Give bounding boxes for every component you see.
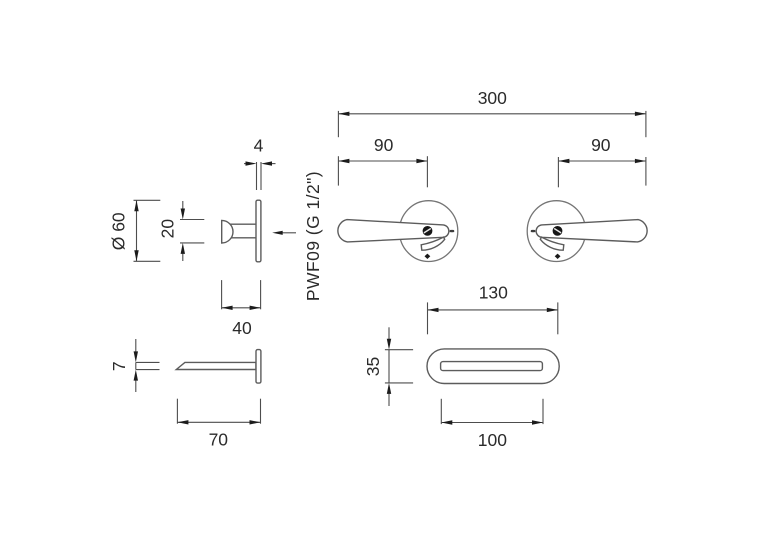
extension lines of 4 bbox=[257, 162, 262, 190]
dimension line diameter 60 bbox=[134, 200, 138, 261]
svg-text:300: 300 bbox=[478, 88, 507, 108]
svg-text:35: 35 bbox=[363, 357, 383, 376]
dimension text 40 bbox=[232, 318, 252, 338]
svg-text:70: 70 bbox=[209, 429, 229, 449]
extension lines of 100 bbox=[441, 399, 543, 424]
svg-text:100: 100 bbox=[478, 430, 507, 450]
right handle side tick mark bbox=[531, 230, 536, 232]
svg-text:7: 7 bbox=[109, 361, 129, 371]
extension lines of 7 bbox=[136, 362, 160, 369]
dimension 35 arrows bbox=[387, 327, 391, 406]
dimension text 90 right bbox=[591, 135, 611, 155]
extension line left of 300 bbox=[337, 111, 339, 137]
extension lines of 90 dims bbox=[338, 156, 646, 187]
dimension 20 arrows bbox=[181, 201, 185, 261]
extension lines of 40 bbox=[222, 280, 261, 309]
spout side view blade bbox=[176, 362, 256, 369]
dimension line 70 bbox=[177, 420, 260, 424]
svg-text:130: 130 bbox=[479, 282, 508, 302]
dimension text 130 bbox=[479, 282, 508, 302]
svg-text:90: 90 bbox=[591, 135, 611, 155]
dimension line 90 right bbox=[558, 159, 646, 163]
handle side view knob dome bbox=[222, 220, 233, 243]
left handle side tick mark bbox=[450, 230, 455, 232]
dimension line 4 (outside arrows) bbox=[244, 161, 276, 165]
left handle screw bbox=[423, 226, 433, 236]
svg-text:Ø 60: Ø 60 bbox=[109, 212, 129, 250]
spout front slot opening bbox=[441, 362, 543, 371]
handle side view wall plate bbox=[256, 200, 261, 262]
dimension line 130 bbox=[428, 308, 558, 312]
right handle lever bbox=[536, 220, 647, 242]
svg-text:4: 4 bbox=[254, 136, 264, 156]
spout side view wall plate bbox=[256, 350, 261, 384]
dimension text 35 bbox=[363, 357, 383, 376]
dimension line 100 bbox=[441, 420, 543, 424]
extension lines of 35 bbox=[385, 350, 413, 383]
dimension text 4 bbox=[254, 136, 264, 156]
dimension text 70 bbox=[209, 429, 229, 449]
dimension text 20 bbox=[157, 219, 177, 239]
dimension 7 arrows bbox=[134, 339, 138, 392]
extension line right of 300 bbox=[645, 111, 647, 137]
extension lines of 130 bbox=[428, 302, 558, 334]
left handle lever bbox=[338, 220, 449, 242]
dimension text diameter 60 bbox=[109, 212, 129, 250]
dimension text 90 left bbox=[374, 135, 394, 155]
spout front oval escutcheon bbox=[427, 349, 559, 384]
handle side view knob stem bbox=[230, 224, 255, 238]
left handle indicator crescent bbox=[421, 237, 445, 250]
svg-text:90: 90 bbox=[374, 135, 394, 155]
svg-text:20: 20 bbox=[157, 219, 177, 239]
svg-text:PWF09 (G 1/2"): PWF09 (G 1/2") bbox=[303, 171, 323, 301]
product code text PWF09 (G 1/2") bbox=[303, 171, 323, 301]
extension lines of diameter 60 bbox=[134, 200, 161, 261]
right handle bottom diamond mark bbox=[555, 254, 561, 259]
right handle indicator crescent bbox=[540, 237, 564, 250]
dimension line 300 bbox=[338, 112, 646, 116]
dimension text 7 bbox=[109, 361, 129, 371]
right handle escutcheon circle bbox=[527, 201, 585, 262]
dimension line 40 bbox=[222, 306, 261, 310]
right handle screw bbox=[553, 226, 563, 236]
left handle bottom diamond mark bbox=[425, 254, 431, 259]
water inlet arrow bbox=[272, 231, 296, 235]
dimension text 100 bbox=[478, 430, 507, 450]
svg-text:40: 40 bbox=[232, 318, 252, 338]
dimension line 90 left bbox=[338, 159, 427, 163]
dimension text 300 bbox=[478, 88, 507, 108]
extension lines of 70 bbox=[177, 399, 260, 424]
extension lines of 20 bbox=[180, 220, 204, 243]
left handle escutcheon circle bbox=[399, 201, 457, 262]
